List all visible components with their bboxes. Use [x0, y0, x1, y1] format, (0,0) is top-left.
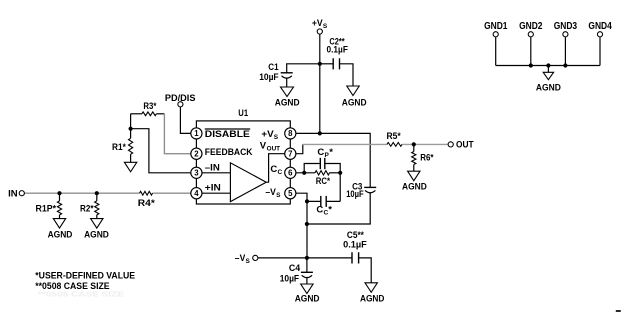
svg-text:R6*: R6*: [420, 152, 434, 163]
svg-text:*USER-DEFINED VALUE: *USER-DEFINED VALUE: [35, 270, 135, 281]
svg-text:+V: +V: [312, 18, 323, 29]
svg-text:S: S: [276, 192, 281, 199]
svg-text:C: C: [270, 164, 277, 175]
svg-text:OUT: OUT: [456, 140, 474, 151]
svg-text:R3*: R3*: [143, 101, 156, 112]
svg-text:**0508 CASE SIZE: **0508 CASE SIZE: [38, 289, 124, 298]
svg-text:–V: –V: [235, 253, 246, 264]
svg-text:–V: –V: [265, 187, 276, 198]
svg-text:OUT: OUT: [267, 146, 281, 153]
svg-text:3: 3: [194, 169, 199, 178]
svg-text:2: 2: [194, 150, 199, 159]
svg-text:C: C: [316, 205, 323, 216]
svg-text:AGND: AGND: [275, 98, 300, 109]
svg-text:AGND: AGND: [536, 82, 561, 93]
svg-text:R2*: R2*: [80, 203, 94, 214]
svg-text:S: S: [274, 134, 279, 141]
svg-text:AGND: AGND: [295, 293, 320, 304]
svg-text:IN: IN: [8, 188, 18, 199]
svg-text:6: 6: [288, 169, 293, 178]
svg-text:DISABLE: DISABLE: [205, 129, 250, 140]
svg-text:GND4: GND4: [588, 21, 612, 32]
svg-text:R5*: R5*: [387, 131, 401, 142]
svg-text:AGND: AGND: [48, 229, 73, 240]
svg-text:GND2: GND2: [519, 21, 543, 32]
svg-text:PD/DIS: PD/DIS: [165, 93, 196, 104]
svg-text:AGND: AGND: [84, 229, 109, 240]
svg-text:C: C: [317, 147, 324, 158]
svg-text:GND1: GND1: [484, 21, 508, 32]
svg-text:RC*: RC*: [316, 176, 331, 187]
svg-text:10µF: 10µF: [259, 72, 279, 83]
svg-text:8: 8: [288, 129, 293, 138]
svg-text:*: *: [329, 147, 333, 158]
svg-text:C4: C4: [289, 263, 301, 274]
svg-text:R4*: R4*: [138, 198, 155, 209]
svg-text:S: S: [323, 23, 328, 30]
svg-text:AGND: AGND: [360, 293, 385, 304]
svg-text:C: C: [278, 169, 283, 176]
svg-text:10µF: 10µF: [346, 189, 364, 200]
svg-text:S: S: [246, 258, 251, 265]
svg-text:GND3: GND3: [554, 21, 578, 32]
svg-text:*: *: [328, 205, 332, 216]
svg-text:+V: +V: [261, 129, 274, 140]
svg-text:AGND: AGND: [342, 98, 367, 109]
svg-text:0.1µF: 0.1µF: [327, 44, 349, 55]
svg-text:R1P*: R1P*: [36, 203, 57, 214]
svg-text:–IN: –IN: [205, 163, 220, 174]
svg-text:0.1µF: 0.1µF: [343, 240, 367, 251]
svg-text:1: 1: [194, 129, 199, 138]
svg-text:U1: U1: [238, 108, 248, 119]
svg-text:7: 7: [288, 150, 292, 159]
svg-text:+IN: +IN: [205, 182, 221, 193]
svg-text:AGND: AGND: [402, 181, 427, 192]
svg-text:4: 4: [194, 189, 199, 198]
svg-text:R1*: R1*: [112, 142, 126, 153]
svg-text:5: 5: [288, 189, 293, 198]
svg-text:10µF: 10µF: [280, 274, 300, 285]
svg-text:FEEDBACK: FEEDBACK: [205, 147, 253, 158]
